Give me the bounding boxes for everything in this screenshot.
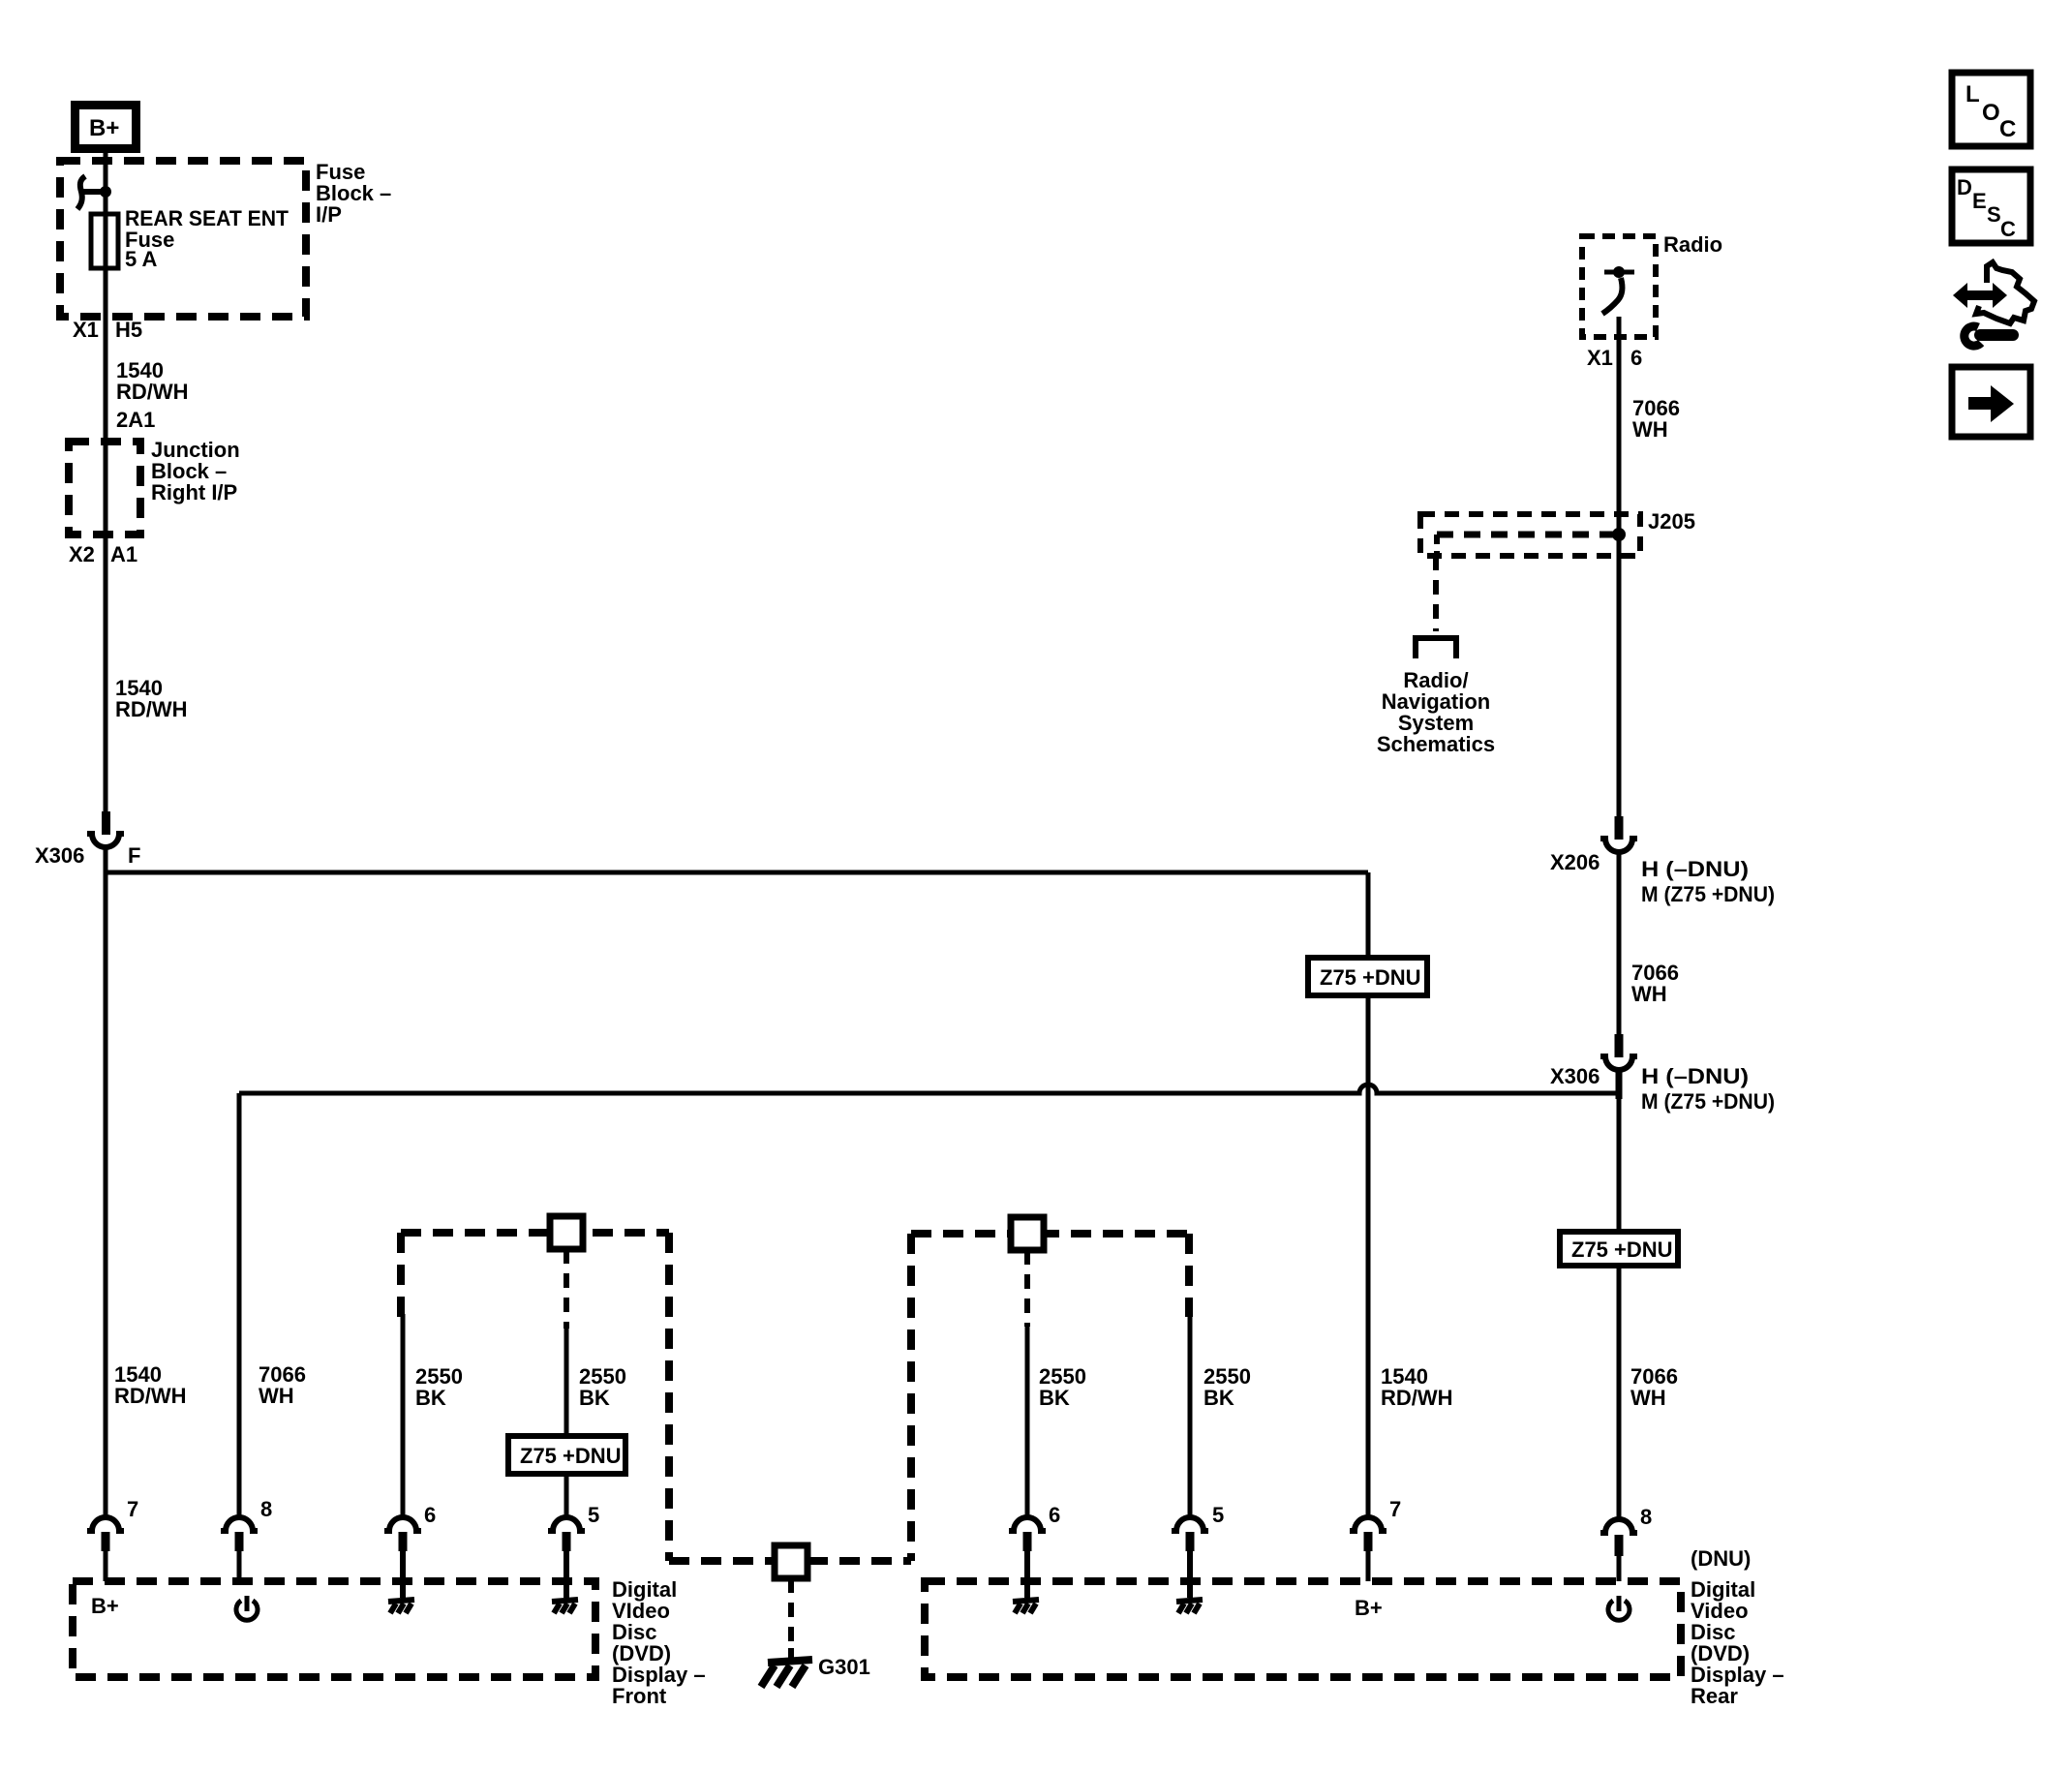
- label Radio/Navigation System Schematics: [1377, 668, 1495, 756]
- svg-text:E: E: [1972, 189, 1987, 213]
- connector X306 pin F (in-line): [87, 811, 124, 847]
- svg-text:M (Z75 +DNU): M (Z75 +DNU): [1641, 882, 1775, 906]
- ground symbol front pin 5: [552, 1600, 578, 1613]
- svg-text:(DNU): (DNU): [1691, 1546, 1751, 1571]
- splice square S1 (front ground box): [550, 1216, 583, 1249]
- label 1540 RD/WH (lower left): [114, 1362, 187, 1408]
- label Digital Video Disc (DVD) Display - Rear: [1691, 1577, 1784, 1708]
- svg-text:F: F: [128, 843, 140, 868]
- wire 7066 WH horizontal with hop over 1540 wire: [239, 1085, 1619, 1093]
- switch inside radio: [1602, 266, 1634, 314]
- label 1540 RD/WH (mid): [115, 676, 188, 721]
- svg-text:6: 6: [424, 1503, 436, 1527]
- ground symbol front pin 6: [388, 1600, 414, 1613]
- ground distribution dashed box (front): [401, 1233, 669, 1561]
- wire 1540 RD/WH left vertical (B+ feed to front display pin 7): [104, 153, 108, 835]
- svg-text:A1: A1: [110, 542, 137, 566]
- connector pin 7 front display: [87, 1517, 124, 1581]
- svg-text:7: 7: [1389, 1497, 1401, 1521]
- off-page bracket: [1416, 638, 1456, 658]
- svg-text:Z75 +DNU: Z75 +DNU: [1571, 1237, 1673, 1262]
- dashed link front box to G301 square: [669, 1557, 775, 1565]
- label REAR SEAT ENT Fuse 5 A: [125, 206, 289, 271]
- labels X306 F: [35, 843, 140, 868]
- rear DVD display dashed box: [925, 1581, 1681, 1677]
- power terminal B+: [76, 106, 137, 149]
- svg-text:L: L: [1965, 81, 1980, 107]
- svg-text:C: C: [1999, 116, 2016, 142]
- svg-text:H5: H5: [115, 318, 142, 342]
- icon arrow box: [1952, 367, 2030, 437]
- svg-text:6: 6: [1630, 346, 1642, 370]
- connector pin 6 front display: [384, 1517, 421, 1598]
- ground symbol rear pin 5: [1176, 1600, 1203, 1613]
- svg-text:BK: BK: [1204, 1386, 1234, 1410]
- svg-text:X2: X2: [69, 542, 95, 566]
- Z75 +DNU box (right): [1560, 1232, 1678, 1266]
- svg-text:X1: X1: [73, 318, 99, 342]
- svg-text:B+: B+: [91, 1594, 119, 1618]
- icon adjust (double arrow, outline, wrench): [1953, 262, 2034, 346]
- wire 2550 BK rear pin 6 (from splice square): [1024, 1250, 1030, 1516]
- svg-text:Schematics: Schematics: [1377, 732, 1495, 756]
- svg-text:5: 5: [1212, 1503, 1224, 1527]
- svg-text:B+: B+: [1355, 1596, 1383, 1620]
- label 2550 BK (front pin5): [579, 1364, 626, 1410]
- svg-text:H (–DNU): H (–DNU): [1641, 857, 1749, 881]
- svg-text:Z75 +DNU: Z75 +DNU: [520, 1444, 622, 1468]
- label 2550 BK (rear pin5): [1204, 1364, 1251, 1410]
- fuse REAR SEAT ENT 5A: [91, 214, 118, 268]
- svg-text:G301: G301: [818, 1655, 870, 1679]
- svg-text:7: 7: [127, 1497, 138, 1521]
- svg-text:S: S: [1987, 202, 2001, 227]
- svg-text:5: 5: [588, 1503, 599, 1527]
- wire 7066 WH X306 to rear pin 8: [1616, 1070, 1623, 1099]
- svg-text:WH: WH: [259, 1384, 294, 1408]
- svg-text:6: 6: [1049, 1503, 1060, 1527]
- connector X206: [1600, 816, 1637, 852]
- svg-text:B+: B+: [89, 115, 119, 141]
- connector pin 5 rear display: [1172, 1517, 1208, 1598]
- junction dot J205: [1612, 528, 1626, 541]
- svg-text:M (Z75 +DNU): M (Z75 +DNU): [1641, 1089, 1775, 1114]
- splice square G301: [775, 1545, 807, 1578]
- svg-text:WH: WH: [1632, 417, 1668, 442]
- wire 2550 BK front pin 6: [401, 1314, 406, 1516]
- front DVD display dashed box: [73, 1581, 595, 1677]
- svg-text:WH: WH: [1631, 982, 1667, 1006]
- wire 1540 RD/WH to rear display pin 7: [1366, 872, 1371, 1516]
- connector pin 7 rear display: [1350, 1517, 1386, 1581]
- svg-text:RD/WH: RD/WH: [115, 697, 188, 721]
- label Digital Video Disc (DVD) Display - Front: [612, 1577, 706, 1708]
- svg-text:J205: J205: [1648, 509, 1695, 534]
- wire radio output: [1617, 317, 1622, 818]
- wire 7066 WH X206 to X306: [1617, 852, 1622, 1036]
- connector pin 8 front display: [221, 1517, 258, 1581]
- ground distribution dashed box (rear): [911, 1234, 1189, 1561]
- pin labels X2 A1: [69, 542, 137, 566]
- svg-text:2A1: 2A1: [116, 408, 155, 432]
- svg-text:8: 8: [1640, 1505, 1652, 1529]
- junction block dashed box: [69, 442, 140, 535]
- pin labels X1 6 (radio): [1587, 346, 1642, 370]
- dashed drop to G301 ground: [788, 1578, 794, 1648]
- svg-text:Front: Front: [612, 1684, 667, 1708]
- svg-text:Rear: Rear: [1691, 1684, 1738, 1708]
- label 7066 WH (mid): [1631, 961, 1679, 1006]
- svg-text:WH: WH: [1630, 1386, 1666, 1410]
- power symbol (front display): [236, 1596, 258, 1620]
- svg-text:5 A: 5 A: [125, 247, 158, 271]
- wire 2550 BK front pin 5 (from splice square): [564, 1249, 569, 1516]
- connector X306 (right): [1600, 1034, 1637, 1070]
- svg-text:Z75 +DNU: Z75 +DNU: [1320, 965, 1421, 990]
- icon LOC box: [1952, 73, 2030, 146]
- svg-text:X306: X306: [1550, 1064, 1600, 1088]
- wire 2550 BK rear pin 5: [1188, 1317, 1193, 1516]
- label 7066 WH (upper): [1632, 396, 1680, 442]
- svg-text:BK: BK: [415, 1386, 446, 1410]
- label 1540 RD/WH (upper): [116, 358, 189, 404]
- svg-text:D: D: [1957, 175, 1972, 199]
- svg-text:O: O: [1982, 100, 2000, 126]
- wire 7066 WH to front display pin 8: [237, 1093, 242, 1516]
- svg-text:RD/WH: RD/WH: [1381, 1386, 1453, 1410]
- wire branch to rear display B+ (1540 RD/WH horizontal): [106, 871, 1368, 875]
- svg-text:RD/WH: RD/WH: [116, 380, 189, 404]
- connector pin 8 rear display: [1600, 1519, 1637, 1581]
- Radio dashed box: [1582, 236, 1656, 337]
- svg-text:C: C: [2000, 217, 2016, 241]
- pin labels X1 H5: [73, 318, 142, 342]
- label Junction Block - Right I/P: [151, 438, 240, 504]
- icon DESC box: [1952, 169, 2030, 243]
- Z75 +DNU box (mid): [1308, 958, 1427, 995]
- label 2550 BK (front pin6): [415, 1364, 463, 1410]
- ground symbol rear pin 6: [1013, 1600, 1039, 1613]
- svg-text:RD/WH: RD/WH: [114, 1384, 187, 1408]
- svg-text:X1: X1: [1587, 346, 1613, 370]
- label 7066 WH (front): [259, 1362, 306, 1408]
- label Fuse Block - I/P: [316, 160, 391, 227]
- svg-text:Radio: Radio: [1663, 232, 1722, 257]
- svg-text:8: 8: [260, 1497, 272, 1521]
- svg-text:Right I/P: Right I/P: [151, 480, 237, 504]
- dashed drop from J205: [1433, 556, 1439, 631]
- labels X306 H(-DNU) M(Z75+DNU): [1550, 1064, 1775, 1114]
- label 7066 WH (rear): [1630, 1364, 1678, 1410]
- Z75 +DNU box (front): [508, 1436, 625, 1474]
- power symbol (rear display): [1608, 1596, 1630, 1620]
- circuit breaker tap symbol: [77, 176, 111, 209]
- svg-text:X206: X206: [1550, 850, 1600, 874]
- svg-text:H (–DNU): H (–DNU): [1641, 1064, 1749, 1088]
- svg-text:BK: BK: [1039, 1386, 1070, 1410]
- svg-text:I/P: I/P: [316, 202, 342, 227]
- svg-text:BK: BK: [579, 1386, 610, 1410]
- labels X206 H(-DNU) M(Z75+DNU): [1550, 850, 1775, 906]
- label 1540 RD/WH (rear): [1381, 1364, 1453, 1410]
- splice J205 dashed box: [1420, 514, 1640, 556]
- splice square S2 (rear ground box): [1011, 1217, 1044, 1250]
- svg-text:X306: X306: [35, 843, 84, 868]
- label 2550 BK (rear pin6): [1039, 1364, 1086, 1410]
- connector pin 5 front display: [548, 1517, 585, 1598]
- connector pin 6 rear display: [1009, 1517, 1046, 1598]
- ground G301 symbol: [761, 1648, 812, 1687]
- fuse block I/P dashed box: [60, 161, 306, 317]
- dashed link G301 square to rear ground box: [807, 1557, 911, 1565]
